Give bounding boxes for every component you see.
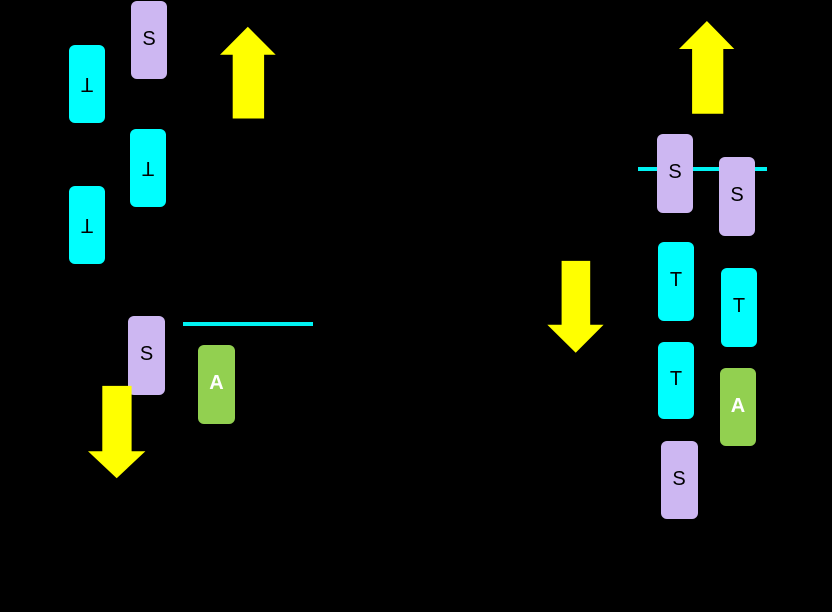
tile T-flipped left 3 — [69, 186, 105, 264]
tile T-flipped left 2 — [130, 129, 166, 207]
left cyan backbone line — [183, 322, 313, 327]
tile S right-bottom — [661, 441, 698, 519]
tile S left-top — [131, 1, 167, 79]
up arrow right — [679, 21, 736, 115]
up arrow left — [220, 26, 277, 120]
tile S right col1 — [657, 134, 693, 213]
right cyan backbone line — [638, 167, 767, 172]
tile T right col1 a — [658, 242, 694, 321]
tile T-flipped left 1 — [69, 45, 105, 123]
tile A left — [198, 345, 235, 424]
tile S left-bottom — [128, 316, 165, 395]
tile A right — [720, 368, 756, 446]
down arrow left — [88, 385, 146, 479]
tile T right col1 b — [658, 342, 694, 419]
tile T right col2 — [721, 268, 757, 347]
tile S right col2 — [719, 157, 755, 236]
down arrow right — [547, 260, 605, 354]
